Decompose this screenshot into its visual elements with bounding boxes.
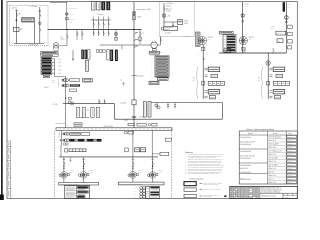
wire transformer feeder [66,30,68,46]
cell cabinet dark section 2 [107,2,111,10]
panel label [41,51,58,54]
accumulator box [14,27,20,31]
dashed enclosure: 0,4kV room [55,129,172,199]
svg-text:обозначения щита: обозначения щита [150,52,161,54]
svg-text:ПУ 3-1 (ЩС) кан. свет: ПУ 3-1 (ЩС) кан. свет [269,151,282,153]
svg-text:существующее оборудование: существующее оборудование [203,189,221,191]
terminal strip table [196,32,201,46]
VT pair drop [156,103,158,109]
tap drop [174,103,176,109]
module stub [52,65,55,67]
label box [277,39,283,43]
cable mark cell [287,136,297,139]
svg-text:ТМГ-250: ТМГ-250 [208,37,213,39]
genset G [151,42,157,48]
breaker + box [124,131,127,134]
module stub [52,58,55,60]
disconnector [66,13,69,16]
drop from switchboard [132,130,134,157]
outgoing feeder [92,30,94,37]
svg-text:Электроснабжение наружное сети: Электроснабжение наружное сети [261,190,282,192]
tag cluster above band [74,123,82,126]
svg-text:2БКТП 2х630: 2БКТП 2х630 [104,126,113,128]
legend item 1: new equipment [184,182,196,186]
small breaker row [96,50,99,52]
svg-text:РУ: РУ [258,78,260,80]
junction [134,29,135,30]
svg-text:щит учёта: щит учёта [277,33,283,35]
cable mark cell [287,167,297,170]
title block [230,186,297,198]
wire TP block input [39,7,41,44]
disconnect lamp [39,22,42,25]
switch box on riser [132,100,136,105]
svg-text:ЩСУ гр.3: ЩСУ гр.3 [269,172,275,174]
RU outgoing row [270,95,273,97]
cabinet dark module 3 [110,50,113,61]
svg-text:ЩО гр.1: ЩО гр.1 [269,179,274,181]
drop to cabinets [121,45,123,49]
cell cabinet white section 2 [97,2,101,10]
current transformer [133,16,136,20]
svg-text:ввод резервн. 0,4кВ: ввод резервн. 0,4кВ [137,9,151,11]
cabinet dark module 1 [81,50,84,60]
cable mark cell [287,174,297,177]
svg-text:ЩО: ЩО [278,40,280,42]
cable tap marks on riser [134,32,138,34]
svg-text:0548-2019-ИОС5.1-ЭС.С Лист 3: 0548-2019-ИОС5.1-ЭС.С Лист 3 [261,188,281,190]
lower rail [115,118,223,120]
svg-text:0,4 кВ: 0,4 кВ [124,120,128,122]
svg-text:ВУ-01 ЩС-ЩМП: ВУ-01 ЩС-ЩМП [269,144,279,146]
feeder [81,30,83,41]
starter row B below band [60,139,62,141]
svg-text:Степень защиты электрооборудов: Степень защиты электрооборудования вентк… [188,173,219,175]
ticks [39,9,41,11]
lamp [161,27,164,30]
breaker [164,7,165,12]
rectifier box [160,152,169,155]
svg-text:щита КК: щита КК [158,172,163,174]
link to transformer [59,45,67,47]
svg-text:10/0,4: 10/0,4 [249,39,253,41]
svg-text:щита КК: щита КК [69,172,74,174]
svg-text:ВВГнг 5х 10: ВВГнг 5х 10 [269,161,276,163]
svg-text:от 1Т: от 1Т [206,54,209,56]
svg-text:ВВГнг 3х 2,5: ВВГнг 3х 2,5 [269,175,277,177]
breaker drop [98,100,100,103]
svg-text:нужд ТП: нужд ТП [165,29,170,31]
cable mark cell [287,150,297,153]
svg-text:щита КК: щита КК [138,172,143,174]
motor/fan M [130,172,137,179]
svg-text:0,4 кВ: 0,4 кВ [245,6,249,8]
RU outgoing row [205,74,208,76]
terminal strip above bus [65,149,68,152]
svg-text:на схеме поз.4: на схеме поз.4 [56,123,66,125]
rectifier feed [151,130,153,157]
svg-text:РУ: РУ [193,78,195,80]
LV switchboard strip [56,128,172,131]
current transformer [66,17,69,20]
breaker [93,22,94,27]
genset terminal box [152,49,156,51]
svg-text:гр.1: гр.1 [59,59,62,61]
arrow out [172,22,174,27]
meter bar [76,107,79,117]
RU outgoing row [205,67,208,69]
cable mark cell [287,178,297,181]
dashed enclosure: auxiliary transformer panel [159,2,194,37]
svg-text:с навесн.: с навесн. [69,170,75,172]
svg-text:с навесн.: с навесн. [89,170,95,172]
cable mark cell [287,146,297,149]
wire drop [92,17,94,21]
svg-text:10/0,4: 10/0,4 [208,39,212,41]
reserve input feeder [50,1,67,3]
RU outgoing row [205,90,208,92]
aux contact box [156,174,158,176]
label: aux board [164,26,178,30]
svg-text:ВВГнг 5х 6,0: ВВГнг 5х 6,0 [269,147,277,149]
motor feeder [63,157,65,172]
svg-text:гр.2: гр.2 [59,62,62,64]
branch to genset [100,44,151,46]
breaker [108,22,109,27]
motor feeder [152,157,154,172]
module stub [52,69,55,71]
svg-text:гр.5: гр.5 [59,73,62,75]
starter lamp [79,174,82,177]
upper rail [151,102,223,104]
wire [152,178,154,182]
svg-text:ввод: ввод [67,124,70,126]
wall board header right [118,182,164,185]
feeder [76,30,78,41]
cable mark cell [287,139,297,142]
motor terminal table 1 [65,186,90,199]
terminal grid [140,187,142,189]
small module [43,75,50,77]
svg-text:РУСН 0,4 кВ: РУСН 0,4 кВ [29,44,38,46]
svg-text:ВВГнг 3х 1,5: ВВГнг 3х 1,5 [269,154,277,156]
svg-text:0,4: 0,4 [258,80,260,82]
svg-text:ТТИ 100/5: ТТИ 100/5 [69,19,75,21]
svg-text:СЕ101: СЕ101 [184,21,188,23]
right tie edge [221,103,223,120]
starter row A below band [58,132,61,138]
motor/fan M [80,172,87,179]
collector wire [54,59,56,77]
main feeder riser x=286 [285,2,287,53]
LV tie line [63,103,115,105]
junction [133,119,134,120]
tap drop [167,103,169,109]
svg-text:в помещении венткамеры: в помещении венткамеры [203,184,218,186]
main incomer riser [133,2,135,128]
cable mark cell [287,181,297,184]
dashed enclosure: diesel-generator panel [10,5,49,46]
RU-0,4 brace [261,67,264,99]
meter bar [82,107,85,117]
feeder [139,30,141,45]
kWh meter [178,20,183,25]
spare cells column [288,25,293,28]
transformer T1 [53,43,59,49]
meter bar [91,107,94,117]
disconnector [284,16,288,20]
svg-text:гр.3: гр.3 [59,66,62,68]
wire: generator feeder [15,10,17,44]
motor/fan M [149,172,156,179]
label box [276,31,286,35]
transformer 2T (wheel symbol) [239,37,247,45]
svg-text:Щит ЩСУ-0,4: Щит ЩСУ-0,4 [240,168,248,170]
wire [132,178,134,182]
ground symbol [122,82,125,86]
wire down to panel [55,50,57,52]
starter group brace [57,78,60,87]
svg-text:ДГУ 100: ДГУ 100 [12,8,17,10]
cabinet dark module 2 [85,50,88,60]
svg-text:щиты и оборудование, устанавл.: щиты и оборудование, устанавл. [203,182,223,184]
motor feeder [132,157,134,172]
distribution panel dark modules [41,57,52,60]
svg-text:(Q-4кВт): (Q-4кВт) [121,103,127,105]
right 0,4kV busbar [219,52,286,54]
aux contact box [87,174,89,176]
svg-text:ЩСУ: ЩСУ [52,80,55,82]
svg-text:щиток собств.: щиток собств. [165,27,174,29]
svg-text:ТМГ-250: ТМГ-250 [249,37,254,39]
svg-text:ВВГнг 3х 1,5: ВВГнг 3х 1,5 [269,182,277,184]
breaker [103,22,104,27]
motor terminal table 2 [146,187,160,199]
left paper edge strip [1,0,3,200]
voltage transformer pair [68,101,71,104]
feeder with arrow [72,50,74,61]
RU outgoing row [266,82,269,85]
svg-text:Примечания:: Примечания: [185,152,194,154]
svg-text:с навесн.: с навесн. [138,170,144,172]
svg-text:Условные обозначения: Условные обозначения [190,179,204,181]
breaker drop [103,100,105,103]
cell cabinet white section 1 [92,2,96,10]
RU outgoing row [270,67,273,69]
wire [33,22,35,44]
svg-text:Начало: Начало [248,133,253,135]
RU outgoing row [205,95,208,97]
box on dashed edge [165,138,171,141]
wire [241,47,245,50]
svg-text:от ТП блока: от ТП блока [166,3,174,5]
svg-text:Марка: Марка [288,133,292,135]
starter row 2 [62,84,64,86]
svg-text:2021-ЭС: 2021-ЭС [166,5,171,7]
sheet frame [7,2,297,199]
svg-text:100/10: 100/10 [60,39,64,41]
svg-text:4x5 мм: 4x5 мм [270,28,274,30]
starter lamp [148,174,151,177]
disconnector [132,11,136,15]
cable mark cell [287,143,297,146]
left margin stamp cells [10,141,12,199]
small pair [63,143,65,145]
bus tag [224,49,231,52]
label: ATS cabinet [22,18,35,22]
svg-text:ВВГнг 5х 4,0: ВВГнг 5х 4,0 [269,168,277,170]
cable journal table [239,131,297,184]
cable mark cell [287,164,297,167]
extra cell [158,78,168,81]
svg-text:резерв. ввод 0,4: резерв. ввод 0,4 [69,8,79,10]
wire [202,45,204,99]
svg-text:ВВГнг 3х 2,5: ВВГнг 3х 2,5 [269,140,277,142]
svg-text:от ТП блока: от ТП блока [30,6,38,8]
outgoing feeder [97,30,99,37]
aux contact box [136,174,138,176]
svg-text:ТСЗ: ТСЗ [60,36,63,38]
feeder continues to switchboard [65,104,67,128]
dark cell strip [69,139,74,142]
main busbar 0,4kV section 1 [48,29,142,31]
tick row [80,117,83,119]
svg-text:0,4: 0,4 [193,80,195,82]
feeder through starters [65,77,67,104]
genset label [149,51,159,54]
svg-text:прокладываемые сети 0,4 кВ: прокладываемые сети 0,4 кВ [203,194,220,196]
outgoing feeder [102,30,104,37]
svg-text:Конец: Конец [273,133,277,135]
cabinet light module [88,50,90,60]
cabinet dark module 4 [115,50,118,61]
motor feeder [83,157,85,172]
svg-text:лист 3: лист 3 [205,198,209,200]
module stub [52,61,55,63]
RU outgoing row [270,74,273,76]
starter lamp [128,174,131,177]
svg-text:гр.4: гр.4 [59,69,62,71]
aux feeder [60,130,62,145]
label: junction box [83,78,93,82]
disconnector [241,14,245,18]
wire drop [102,17,104,21]
tag [70,89,77,92]
wire [163,3,165,26]
cable mark cell [287,153,297,156]
starter lamp [59,174,62,177]
svg-text:щита КК: щита КК [89,172,94,174]
wire [63,178,65,182]
tag box [149,81,159,84]
LV panel stack [219,31,233,34]
surge arrester [283,2,285,12]
svg-text:ЩСУ гр.1 ВВГнг: ЩСУ гр.1 ВВГнг [269,158,279,160]
sub-busbar [59,156,158,158]
legend item 2: existing [184,188,196,191]
wire drop [97,17,99,21]
svg-text:2КЛ-0,4кВ: 2КЛ-0,4кВ [137,76,144,78]
svg-text:17,5 кВт: 17,5 кВт [53,104,58,106]
header tie line [91,19,110,21]
vertical label bar [86,60,89,71]
vertical label bar [144,102,147,118]
module stub [52,72,55,74]
svg-text:гр.1,2: гр.1,2 [52,82,56,84]
motor/fan M [61,172,68,179]
meter bar [96,107,99,117]
svg-text:вент. №1: вент. №1 [71,80,76,82]
outgoing feeder [107,30,109,37]
RU outgoing row [270,90,273,92]
transformer 1T (wheel symbol) [198,37,206,45]
branch [164,21,178,23]
svg-text:4шт: 4шт [87,110,90,112]
svg-text:ВУ-ТП-ТП (до щита): ВУ-ТП-ТП (до щита) [269,137,282,139]
svg-text:ввод 2: ввод 2 [245,4,249,6]
legend item 3: cable [184,194,196,197]
RU-0,4 brace [196,67,199,99]
cabinet light module [107,50,109,60]
breaker [98,22,99,27]
arrow terminal [16,18,18,21]
RU outgoing row [201,82,204,85]
svg-text:щит ЩСН: щит ЩСН [165,33,171,35]
feeder riser 2T [242,2,244,53]
step down corner [114,104,116,120]
TSN tap [132,116,136,118]
feeder from band to sub-bus [60,145,62,157]
svg-text:кабелем ВВГнг: кабелем ВВГнг [203,196,212,198]
svg-text:с навесн.: с навесн. [158,170,164,172]
junction + tap [65,98,66,99]
bottom bus of panel [14,43,44,45]
starter row 1 [62,79,64,81]
feeder to RU section R [267,53,269,99]
hook drop [70,157,72,162]
breaker QF in generator feeder [16,13,17,18]
feeder with disconnect [115,30,117,41]
wire [83,178,85,182]
aux contact box [67,174,69,176]
tag boxes near riser [125,148,128,152]
svg-text:ОПН: ОПН [288,4,291,6]
wall board header left [59,183,99,186]
svg-text:с ТП до ЩСН: с ТП до ЩСН [183,36,191,38]
cable mark cell [287,157,297,160]
cable mark cell [287,160,297,163]
svg-text:ТП блока: ТП блока [97,14,104,16]
wire drop [107,17,109,21]
svg-text:ТТ: ТТ [143,33,145,35]
link to SCHN [157,44,160,46]
svg-text:ЩСУ гр.2 ВВГнг: ЩСУ гр.2 ВВГнг [269,165,279,167]
svg-text:от ЩСУ: от ЩСУ [44,87,49,89]
margin tick [224,195,226,197]
cable mark cell [287,171,297,174]
svg-text:0,4: 0,4 [197,54,199,56]
vertical label bar [148,102,151,118]
labels above strip [128,123,134,126]
cell cabinet dark section 1 [102,2,106,10]
svg-text:Принципиальная схема: Принципиальная схема [262,195,277,197]
disconnector [162,14,166,18]
